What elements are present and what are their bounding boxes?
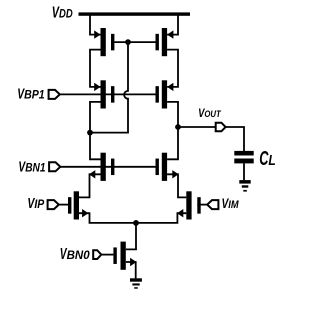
nmos M2 bbox=[177, 191, 201, 219]
wire gate bias vertical with hop over VBP1 bbox=[90, 42, 128, 133]
wire VBP1 line bbox=[60, 93, 156, 95]
wire VIM to M2 gate bbox=[197, 204, 207, 206]
terminal VIP bbox=[48, 200, 59, 209]
svg-text:VIP: VIP bbox=[27, 195, 45, 212]
svg-text:VBP1: VBP1 bbox=[17, 85, 45, 102]
wire CL to ground bbox=[243, 163, 245, 180]
wire VDD to M8 source bbox=[167, 15, 178, 35]
wire VBN1 line bbox=[60, 166, 155, 168]
node tail junction bbox=[133, 220, 139, 226]
capacitor CL bbox=[234, 151, 253, 164]
wire VOUT to CL bbox=[226, 127, 244, 152]
terminal VOUT bbox=[216, 123, 226, 132]
wire M7 drain to M5 source bbox=[90, 50, 101, 87]
pmos M6 bbox=[156, 80, 174, 108]
wire M6 drain to M4 drain bbox=[167, 102, 178, 159]
wire VBN0 to M0 gate bbox=[101, 254, 113, 256]
node VOUT junction bbox=[175, 124, 181, 130]
node M7/M8 gate junction bbox=[125, 39, 131, 45]
net label VBN0 bbox=[60, 246, 90, 263]
terminal VIM bbox=[207, 200, 218, 209]
pmos M5 bbox=[94, 80, 114, 108]
svg-text:VBN1: VBN1 bbox=[18, 159, 45, 176]
svg-text:VOUT: VOUT bbox=[198, 106, 222, 120]
wire M7 gate to M8 gate bbox=[114, 41, 155, 43]
svg-text:VBN0: VBN0 bbox=[60, 246, 90, 263]
wire M3 source to M1 drain bbox=[79, 174, 101, 197]
svg-text:VDD: VDD bbox=[52, 5, 73, 22]
net label VDD bbox=[52, 5, 73, 22]
wire M5 drain to M3 drain bbox=[90, 102, 101, 159]
wire VIP to M1 gate bbox=[59, 204, 68, 206]
wire VDD to M7 source bbox=[90, 15, 101, 35]
terminal VBN0 bbox=[93, 250, 101, 259]
terminal VBN1 bbox=[49, 162, 60, 171]
wire M4 source to M2 drain bbox=[167, 174, 186, 197]
net label VIP bbox=[27, 195, 45, 212]
nmos M0 bbox=[113, 242, 136, 270]
wire VOUT left segment bbox=[178, 126, 216, 128]
VDD rail bbox=[79, 12, 191, 15]
nmos M4 bbox=[156, 153, 179, 181]
ground below M0 bbox=[130, 278, 142, 288]
value label CL bbox=[259, 147, 276, 170]
pmos M8 bbox=[156, 28, 174, 56]
nmos M1 bbox=[68, 191, 88, 219]
net label VOUT bbox=[198, 106, 222, 120]
net label VBP1 bbox=[17, 85, 45, 102]
wire M1 source to tail to M2 source bbox=[79, 213, 186, 223]
terminal VBP1 bbox=[49, 90, 60, 99]
net label VBN1 bbox=[18, 159, 45, 176]
net label VIM bbox=[222, 195, 240, 211]
wire tail to M0 drain bbox=[126, 223, 136, 250]
ground below CL bbox=[239, 180, 250, 191]
wire M0 source to ground bbox=[126, 262, 136, 278]
nmos M3 bbox=[89, 153, 114, 181]
wire M8 drain to M6 source bbox=[167, 50, 178, 87]
node bias junction bbox=[87, 130, 93, 136]
pmos M7 bbox=[94, 28, 114, 56]
